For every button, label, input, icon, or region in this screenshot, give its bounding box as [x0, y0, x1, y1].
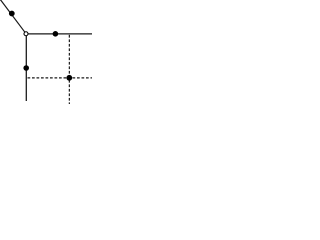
node O open circle junction	[24, 32, 28, 36]
node P filled dot at dashed crossing	[66, 75, 72, 81]
node A filled dot on diagonal	[9, 11, 15, 17]
wire vertical from node O down	[25, 36, 27, 101]
node C filled dot on vertical wire	[23, 65, 29, 71]
wire diagonal from top-left corner to node O	[0, 0, 26, 34]
wire dashed vertical at x=69.3	[68, 35, 70, 104]
wire dashed horizontal at y=77.9	[28, 77, 93, 79]
wire horizontal from node O to right	[28, 33, 92, 35]
node B filled dot on horizontal wire	[53, 31, 59, 37]
background	[0, 0, 93, 104]
